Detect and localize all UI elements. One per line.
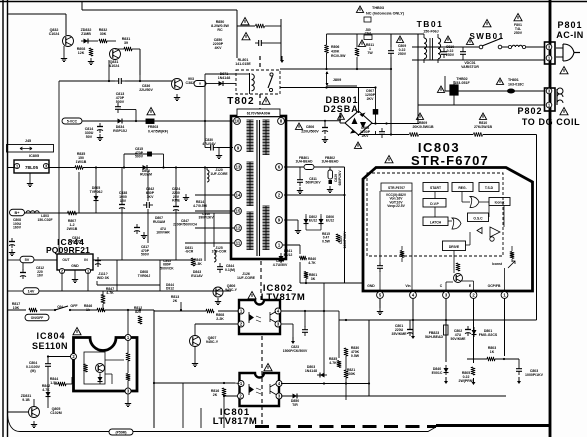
svg-text:11: 11 xyxy=(236,241,241,246)
svg-text:D912: D912 xyxy=(166,287,174,291)
warning triangle SW801 xyxy=(483,20,491,27)
wire ic802 right net xyxy=(324,310,339,312)
AC plug symbol xyxy=(556,44,574,61)
wire y383 xyxy=(154,382,235,384)
block START xyxy=(423,183,448,192)
warning triangle R850 xyxy=(241,18,249,25)
ground R808 xyxy=(90,58,92,62)
wire pin12 left xyxy=(195,227,234,229)
net 5-VCC xyxy=(62,118,82,124)
relay coil xyxy=(249,73,251,91)
resistor R831 39 xyxy=(124,47,132,51)
switch SW801 xyxy=(479,45,483,49)
svg-text:0.47/5W(RF): 0.47/5W(RF) xyxy=(148,130,168,134)
net 14V oval xyxy=(23,288,39,295)
svg-text:EU12: EU12 xyxy=(326,219,334,223)
wire j809 low xyxy=(327,85,358,87)
relay contact xyxy=(270,73,273,76)
svg-text:5V: 5V xyxy=(25,258,30,262)
svg-text:1N4148: 1N4148 xyxy=(305,369,317,373)
transistor Q806 945C-Y xyxy=(213,287,223,297)
svg-text:1W/1B: 1W/1B xyxy=(76,160,87,164)
svg-text:16V: 16V xyxy=(37,274,44,278)
transistor Q832 C1024 xyxy=(63,36,74,47)
svg-text:12: 12 xyxy=(236,226,241,231)
svg-text:1N4148: 1N4148 xyxy=(218,76,231,80)
block DVP xyxy=(423,199,446,208)
transformer pin 15 xyxy=(235,208,242,215)
block TSD xyxy=(479,183,499,192)
svg-text:2-2K: 2-2K xyxy=(216,317,224,321)
dashed line relay to T802 xyxy=(259,56,261,70)
svg-text:560P/2KV: 560P/2KV xyxy=(305,181,321,185)
svg-text:5UH-BEAD: 5UH-BEAD xyxy=(425,335,444,339)
svg-text:TVR06J: TVR06J xyxy=(138,274,151,278)
border top line xyxy=(0,1,587,3)
svg-text:RC/0-5W: RC/0-5W xyxy=(331,54,346,58)
svg-text:T/R: T/R xyxy=(292,403,298,407)
STR-F6707 inner label box xyxy=(381,183,412,191)
wire r809 row xyxy=(359,134,410,136)
svg-text:W/D 3K: W/D 3K xyxy=(97,276,110,280)
svg-text:O.S.C: O.S.C xyxy=(473,217,483,221)
capacitor C806 220U/500V xyxy=(295,123,302,129)
transistor Q807 945C-Y xyxy=(190,336,201,347)
zener ZD832 Z1MB xyxy=(81,40,91,42)
svg-text:13: 13 xyxy=(236,165,241,170)
switch contact xyxy=(55,306,68,310)
svg-text:160V: 160V xyxy=(13,226,22,230)
transformer pin 9b xyxy=(276,217,283,224)
fuse F801 label xyxy=(514,14,522,21)
warning triangle P802 xyxy=(560,108,568,115)
svg-text:Z1MB: Z1MB xyxy=(81,32,91,36)
wire bridge right xyxy=(372,123,419,125)
wire pins down xyxy=(379,298,381,308)
svg-text:30K: 30K xyxy=(100,32,107,36)
svg-text:1UF-CORE: 1UF-CORE xyxy=(237,276,256,280)
cap inside gnd xyxy=(379,262,381,266)
wire ic802 left xyxy=(154,310,206,312)
warning triangle IC804 xyxy=(73,328,81,335)
IC803 inner dashed box xyxy=(367,173,503,256)
svg-text:22U/50V: 22U/50V xyxy=(139,88,153,92)
svg-text:0.5W: 0.5W xyxy=(351,354,360,358)
relay RL801 dashed box xyxy=(236,70,280,94)
svg-text:0.1(M): 0.1(M) xyxy=(225,268,235,272)
svg-text:500V: 500V xyxy=(135,155,144,159)
wire relay left xyxy=(206,83,216,85)
svg-text:4.7K: 4.7K xyxy=(308,261,316,265)
svg-text:4.7K: 4.7K xyxy=(106,291,114,295)
dashed line couplers xyxy=(261,336,263,425)
svg-text:2K: 2K xyxy=(173,299,178,303)
IC801 LTV817M body xyxy=(240,373,280,406)
svg-text:FMG-G2CS: FMG-G2CS xyxy=(479,333,498,337)
transformer winding left middle xyxy=(247,161,254,163)
svg-text:250V: 250V xyxy=(514,31,523,35)
svg-text:1UH-BEAD: 1UH-BEAD xyxy=(295,160,313,164)
transformer T802 body xyxy=(231,116,286,259)
regulator IC805 78L05 body xyxy=(14,160,49,173)
dashed line transformer to IC802 xyxy=(260,261,262,302)
IC803 STR-F6707 body xyxy=(363,168,533,292)
svg-text:TO DG COIL: TO DG COIL xyxy=(522,117,580,127)
warning triangle T802 xyxy=(262,97,270,104)
svg-text:141-015E: 141-015E xyxy=(235,62,251,66)
verticals top mid xyxy=(326,34,328,45)
svg-text:THB03: THB03 xyxy=(372,6,384,10)
resistor R832 30K xyxy=(99,39,107,43)
svg-text:Vovp:22.5V: Vovp:22.5V xyxy=(387,204,405,208)
wire relay to bridge xyxy=(280,87,376,89)
svg-text:GND: GND xyxy=(367,284,375,288)
capacitor C814 330U 50V xyxy=(99,123,101,127)
net Y oval xyxy=(194,81,206,87)
resistor R811 1 7W xyxy=(358,40,365,46)
svg-text:ON/OFF: ON/OFF xyxy=(31,316,43,320)
svg-text:REG.: REG. xyxy=(458,186,466,190)
svg-text:4.7/0.5W: 4.7/0.5W xyxy=(193,204,208,208)
IC804 SE110N body xyxy=(74,338,138,392)
svg-text:250V: 250V xyxy=(398,52,407,56)
svg-text:IC804: IC804 xyxy=(36,331,65,341)
transformer pin 13 xyxy=(235,164,242,171)
resistor inside pin1 xyxy=(510,252,514,259)
svg-text:0.5W: 0.5W xyxy=(322,239,331,243)
transformer pin 8 xyxy=(278,118,285,125)
svg-text:J809: J809 xyxy=(333,78,341,82)
wire B+ rail xyxy=(24,212,231,214)
transistor Q833 C3852Y xyxy=(172,79,183,90)
block Iconst xyxy=(489,198,510,206)
ground d808 xyxy=(143,232,145,236)
svg-text:NC (Indonesia ONLY): NC (Indonesia ONLY) xyxy=(366,12,405,16)
wire AC top xyxy=(412,46,479,48)
svg-text:GND: GND xyxy=(71,264,79,268)
bottom thin return wire xyxy=(8,415,437,432)
svg-text:P802: P802 xyxy=(517,106,542,116)
svg-text:OUT: OUT xyxy=(62,258,70,262)
svg-text:R806: R806 xyxy=(331,45,339,49)
long vertical x59 xyxy=(58,81,60,260)
svg-text:TB01: TB01 xyxy=(417,19,444,29)
transformer pin 10 xyxy=(234,118,241,125)
svg-text:TH801: TH801 xyxy=(508,78,519,82)
svg-text:RU3AM: RU3AM xyxy=(140,173,152,177)
svg-text:START: START xyxy=(430,186,442,190)
svg-text:RC: RC xyxy=(217,28,223,32)
ground C814 xyxy=(99,134,101,138)
varistor VDC01 xyxy=(462,48,464,52)
svg-text:680P/2KV: 680P/2KV xyxy=(338,170,342,186)
svg-text:DRIVE: DRIVE xyxy=(449,245,460,249)
verticals to bottom rail xyxy=(182,383,184,428)
svg-text:1000P/1KV: 1000P/1KV xyxy=(343,231,347,249)
svg-text:RU3AM: RU3AM xyxy=(153,220,165,224)
wire r816 bottom xyxy=(223,395,225,397)
wire AC bottom xyxy=(412,59,545,61)
svg-text:390P/2KV: 390P/2KV xyxy=(198,216,214,220)
svg-text:AC-IN: AC-IN xyxy=(556,30,584,40)
block OSC xyxy=(468,213,489,222)
svg-text:4.7U/50V: 4.7U/50V xyxy=(273,263,288,267)
warning triangle FR803 xyxy=(147,108,155,115)
wire node xyxy=(91,40,98,42)
svg-text:1UH-BEAD: 1UH-BEAD xyxy=(321,160,339,164)
svg-text:15V: 15V xyxy=(120,199,127,203)
transformer pin 14 xyxy=(235,192,242,199)
svg-text:C806: C806 xyxy=(306,125,314,129)
IC844 body xyxy=(57,254,93,270)
long vertical ocp chain xyxy=(344,167,346,283)
transistor Q831 A1024 xyxy=(110,49,121,60)
warning triangles TB01 xyxy=(396,36,403,42)
svg-text:P801: P801 xyxy=(557,20,582,30)
wire pin11 left xyxy=(185,242,234,244)
wire mid verticals xyxy=(323,283,325,375)
wires verticals left col xyxy=(95,168,97,194)
wire q807 up xyxy=(194,324,196,336)
rail y167 left xyxy=(83,167,231,169)
wire 5V rail xyxy=(8,259,20,261)
net B+ oval xyxy=(10,209,25,216)
svg-text:945C-Y: 945C-Y xyxy=(206,340,219,344)
feedback wire xyxy=(536,135,538,321)
wire top-left xyxy=(8,13,67,15)
svg-text:(P50M): (P50M) xyxy=(115,430,126,434)
IC804 pin 3 xyxy=(125,388,131,394)
IC802 LTV817M body xyxy=(239,300,280,334)
svg-text:2K: 2K xyxy=(213,393,218,397)
wire c815 xyxy=(124,153,148,155)
ground Q807 xyxy=(194,346,196,360)
wire bridge left xyxy=(340,122,345,124)
svg-text:50V: 50V xyxy=(86,135,93,139)
DG coil symbol xyxy=(557,88,563,103)
svg-text:B+: B+ xyxy=(15,211,21,215)
IC801 phototransistor xyxy=(270,384,276,395)
wire ic804 pin3 down xyxy=(127,395,129,401)
warning triangle IC802 xyxy=(248,292,256,299)
svg-text:T802: T802 xyxy=(227,96,255,107)
wire c836 xyxy=(139,49,141,81)
transformer winding left lower xyxy=(247,211,254,213)
svg-text:Vin: Vin xyxy=(405,284,410,288)
wire pin6 right xyxy=(284,166,345,168)
net ON/OFF oval xyxy=(25,314,49,321)
diode D834 RGP15J xyxy=(115,120,125,122)
svg-text:163-018C: 163-018C xyxy=(508,83,524,87)
top rail y34 xyxy=(327,33,425,35)
svg-text:STR-F6707: STR-F6707 xyxy=(411,153,489,168)
svg-text:4KV: 4KV xyxy=(215,46,223,50)
transformer pin 12 xyxy=(235,225,242,232)
amp triangle small xyxy=(477,228,482,234)
block DRIVE xyxy=(443,241,466,251)
wire se110n pin2 xyxy=(48,356,71,358)
svg-text:1UF-COR: 1UF-COR xyxy=(212,250,227,254)
warning triangle IC803 xyxy=(385,156,393,163)
transformer pin 1 xyxy=(276,242,283,249)
svg-text:9.1B: 9.1B xyxy=(22,398,30,402)
svg-text:2200P/500V/CH: 2200P/500V/CH xyxy=(173,223,197,227)
svg-text:78L05: 78L05 xyxy=(25,165,38,170)
wire r803 row xyxy=(467,358,487,360)
rail mesh 213-261 xyxy=(147,213,149,243)
IC801 led xyxy=(249,386,254,393)
svg-text:500V: 500V xyxy=(116,100,125,104)
wire 14V rail xyxy=(8,290,23,292)
long vertical x154 xyxy=(153,310,155,428)
output transistor xyxy=(454,274,463,283)
wire r842 chain xyxy=(54,383,58,385)
svg-text:-GCR: -GCR xyxy=(185,250,194,254)
wire pin8 right xyxy=(284,120,341,122)
component THB03 xyxy=(364,17,371,22)
wire pin2 right xyxy=(284,194,345,196)
transformer pin 11 xyxy=(235,240,242,247)
svg-text:47U/16V: 47U/16V xyxy=(202,142,216,146)
wire ocp net xyxy=(299,262,301,283)
bottom thick dashed isolation line xyxy=(255,425,436,428)
wire on/off xyxy=(8,309,26,311)
wire R850 right xyxy=(280,19,282,60)
wire y396 xyxy=(299,395,506,397)
wire to snubber xyxy=(204,121,206,148)
wire ic801 right xyxy=(281,383,369,385)
bottom arrows xyxy=(445,377,447,381)
mains right thick line xyxy=(549,0,552,437)
svg-text:2W(PRN): 2W(PRN) xyxy=(459,379,474,383)
thermistor TH801 163-018C xyxy=(496,78,503,84)
svg-text:10: 10 xyxy=(235,119,240,124)
wire pin1 right xyxy=(283,244,300,246)
net label (P50M) xyxy=(109,429,133,435)
svg-text:3K: 3K xyxy=(311,277,316,281)
svg-text:SE110N: SE110N xyxy=(32,341,68,351)
wire vcc rail xyxy=(82,120,233,122)
svg-text:A1024: A1024 xyxy=(109,64,120,68)
block REG xyxy=(452,183,473,192)
svg-text:IN: IN xyxy=(84,258,88,262)
svg-text:EU1AV: EU1AV xyxy=(191,274,203,278)
ground IC844 xyxy=(74,270,76,276)
warning triangle THB03 xyxy=(356,6,363,12)
warning triangle R810 xyxy=(479,113,486,119)
transistor Q805 C102M xyxy=(29,407,40,418)
IC802 phototransistor xyxy=(270,312,276,323)
bottom thick line right xyxy=(436,424,550,427)
transformer pin 9 xyxy=(235,145,242,152)
wire caps xyxy=(375,88,377,110)
warning triangle R809 xyxy=(416,113,423,119)
IC804 right resistors xyxy=(127,341,129,353)
svg-text:39: 39 xyxy=(124,41,128,45)
svg-text:LTV817M: LTV817M xyxy=(213,416,258,427)
svg-text:15: 15 xyxy=(236,209,241,214)
net 5V oval xyxy=(20,256,34,263)
svg-text:1000P/1KV: 1000P/1KV xyxy=(525,373,544,377)
svg-text:6170VNFA00H: 6170VNFA00H xyxy=(247,112,271,116)
wire d80x xyxy=(305,214,307,216)
gnd resistor inside xyxy=(400,251,404,258)
svg-text:LTV817M: LTV817M xyxy=(261,292,306,303)
transformer winding right lower xyxy=(263,205,270,207)
svg-text:FR803: FR803 xyxy=(148,125,159,129)
svg-text:OCP/FB: OCP/FB xyxy=(488,284,501,288)
svg-text:STR-F6707: STR-F6707 xyxy=(388,186,405,190)
svg-text:20K/0.5W/1B: 20K/0.5W/1B xyxy=(412,125,433,129)
svg-text:14V: 14V xyxy=(28,289,35,293)
svg-text:150-C02F: 150-C02F xyxy=(37,218,52,222)
svg-text:2W/1B: 2W/1B xyxy=(67,227,78,231)
svg-text:Iconst: Iconst xyxy=(495,201,506,205)
wire pin15 left xyxy=(195,210,234,212)
svg-text:1500P/CK/500V: 1500P/CK/500V xyxy=(283,349,308,353)
ground IC805 xyxy=(29,173,31,180)
svg-text:VARISTOR: VARISTOR xyxy=(461,65,479,69)
svg-text:10K: 10K xyxy=(13,306,20,310)
IC804 inner circuit xyxy=(84,352,105,384)
wire ic805 xyxy=(8,167,15,169)
svg-text:EU12: EU12 xyxy=(309,219,317,223)
svg-text:E001C: E001C xyxy=(432,371,443,375)
capacitor C836 22U/50V xyxy=(115,80,119,82)
gate 1 xyxy=(470,196,479,207)
transformer TB01 body xyxy=(424,38,427,59)
svg-text:50V/KME: 50V/KME xyxy=(451,337,467,341)
wire R831 xyxy=(115,48,124,50)
svg-text:35V/KME: 35V/KME xyxy=(392,332,408,336)
svg-text:160V/HR: 160V/HR xyxy=(156,231,170,235)
connector P802 body xyxy=(545,88,556,111)
transformer core xyxy=(256,120,258,256)
IC801 pins xyxy=(238,381,244,387)
wire ic801 left xyxy=(235,382,240,385)
bridge DB801 body xyxy=(345,111,372,135)
border left double line xyxy=(2,0,4,437)
ground Q833 xyxy=(176,94,178,98)
resistor R808 12K xyxy=(89,48,93,56)
svg-text:LATCH: LATCH xyxy=(430,221,442,225)
warning triangle P801 xyxy=(560,67,568,74)
svg-text:RGP15J: RGP15J xyxy=(113,129,127,133)
IC802 led xyxy=(249,314,254,321)
transformer winding right upper xyxy=(263,119,270,121)
IC804 pin 1 xyxy=(125,335,131,341)
svg-text:5-VCC: 5-VCC xyxy=(67,119,78,123)
wire relay right upper xyxy=(280,68,391,70)
connector P801 body xyxy=(545,42,556,64)
svg-text:C1024: C1024 xyxy=(49,32,60,36)
svg-text:IC805: IC805 xyxy=(29,154,39,158)
warning triangle bridge xyxy=(354,142,361,148)
svg-text:J45: J45 xyxy=(25,139,31,143)
wire thermistor row xyxy=(453,81,455,85)
arrow terminal xyxy=(281,56,283,60)
svg-text:27K/2W/1B: 27K/2W/1B xyxy=(474,125,493,129)
fuse F801 xyxy=(508,45,511,48)
warning triangle IC801 xyxy=(264,364,272,371)
IC803 internal wires xyxy=(434,192,436,199)
transformer winding left upper xyxy=(247,119,254,121)
svg-text:12K: 12K xyxy=(78,51,85,55)
svg-text:4.7K: 4.7K xyxy=(329,361,337,365)
gate 2 xyxy=(452,218,461,229)
svg-text:500V: 500V xyxy=(141,253,150,257)
svg-text:14: 14 xyxy=(236,193,241,198)
